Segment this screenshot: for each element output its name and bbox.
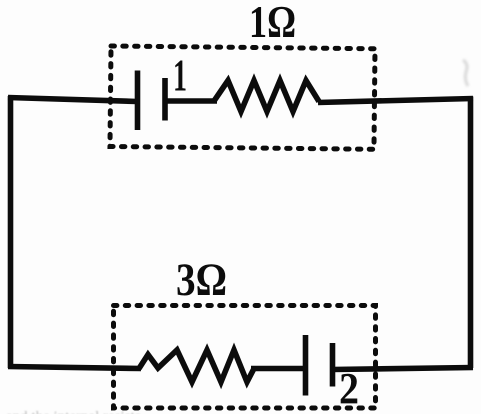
battery cell 1: short plate (negative) bbox=[162, 78, 168, 121]
dashed box around resistor 3 ohm and battery 2 bbox=[114, 306, 376, 409]
wire: top-right horizontal (resistor to right corner) bbox=[318, 99, 473, 103]
wire: left vertical bbox=[8, 96, 14, 368]
battery cell 1: long plate (positive) bbox=[135, 71, 141, 131]
wire: bottom horizontal left (left corner to resistor 3ohm) bbox=[8, 367, 141, 369]
resistor R1 (1 ohm) zigzag bbox=[214, 81, 319, 112]
battery cell 2: long plate (positive) bbox=[303, 335, 309, 396]
wire: bottom horizontal middle (resistor to battery 2) bbox=[251, 366, 305, 372]
svg-text:1Ω: 1Ω bbox=[249, 0, 296, 47]
wire: bottom horizontal right (battery 2 to right corner) bbox=[332, 368, 473, 370]
wire: right vertical bbox=[468, 97, 474, 369]
wire: top-left horizontal (left corner to battery 1) bbox=[8, 98, 137, 102]
resistor R2 (3 ohm) zigzag bbox=[139, 350, 254, 382]
wire: battery 1 to resistor bbox=[165, 98, 217, 104]
faint scan smudge top-right bbox=[463, 60, 468, 86]
svg-text:2: 2 bbox=[339, 364, 359, 413]
svg-text:3Ω: 3Ω bbox=[176, 254, 227, 306]
svg-text:1: 1 bbox=[173, 50, 187, 101]
svg-text:and the internal resista: and the internal resista bbox=[6, 409, 142, 414]
battery cell 2: short plate (negative) bbox=[330, 343, 336, 387]
dashed box around battery 1 and resistor 1 ohm bbox=[110, 46, 375, 149]
